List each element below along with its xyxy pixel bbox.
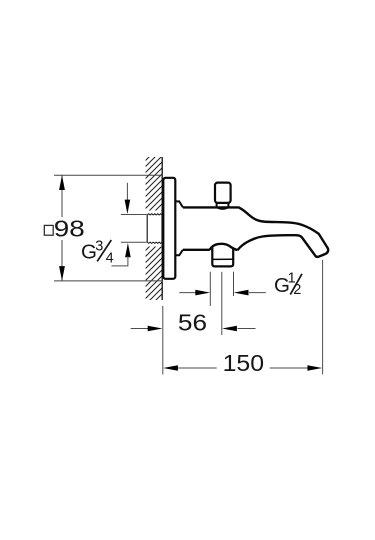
extension line top (98 dim) [54, 174, 163, 176]
svg-text:56: 56 [178, 310, 207, 336]
150 arrow right [307, 365, 322, 371]
G3/4 tick bottom [121, 241, 147, 243]
svg-text:3: 3 [95, 239, 103, 255]
body bottom step [175, 250, 183, 256]
diverter knob [215, 183, 231, 203]
G3/4 tick top [121, 214, 147, 216]
outlet centerline [221, 272, 223, 335]
dimension line 98 vertical [61, 175, 63, 217]
square symbol [44, 225, 53, 235]
wall hatch upper [146, 157, 163, 211]
svg-text:2: 2 [293, 282, 301, 298]
outlet collar arch [209, 244, 237, 250]
G3/4 dimension: down arrow [126, 183, 128, 201]
svg-text:150: 150 [223, 351, 264, 377]
body + spout outline [183, 207, 328, 256]
body top step [175, 201, 183, 207]
arrow down (98) [59, 266, 65, 281]
G1/2 extension line left [209, 272, 211, 306]
wall hatch lower [146, 247, 163, 301]
wall surface line [161, 157, 163, 300]
G3/4 up arrow and leader [125, 243, 131, 257]
G1/2 dim arrows [179, 292, 196, 294]
svg-text:98: 98 [54, 217, 85, 242]
56 dim left [131, 328, 149, 330]
150 right extension (spout tip) [322, 260, 324, 375]
G1/2 extension line right [233, 272, 235, 296]
150 dim line [178, 367, 217, 369]
knob neck [217, 204, 229, 208]
svg-text:4: 4 [106, 251, 114, 267]
outlet nut divider [212, 258, 233, 260]
wall extension line below [162, 306, 164, 375]
arrow up (98) [59, 175, 65, 190]
extension line bottom (98 dim) [54, 280, 163, 282]
56 dim right [238, 328, 256, 330]
G3/4 pipe thread behind wall [147, 214, 162, 244]
flange (escutcheon side view) [163, 178, 175, 279]
150 arrow left [163, 365, 178, 371]
body bottom edge [183, 249, 210, 251]
outlet nut [212, 247, 233, 266]
